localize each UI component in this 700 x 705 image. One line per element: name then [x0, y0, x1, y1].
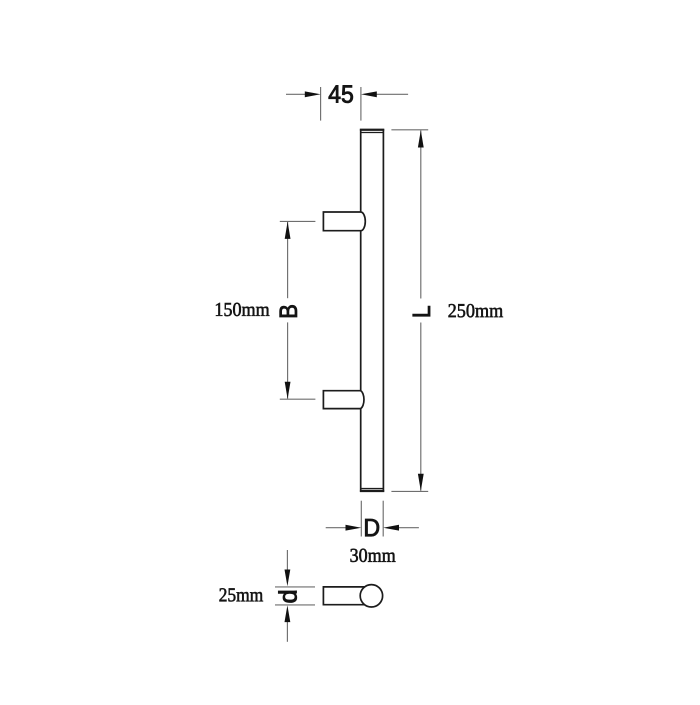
dim B/150mm: dimension line lower segment: [287, 322, 289, 398]
dim L/250mm: top arrowhead: [418, 130, 424, 147]
bar top end-cap line: [361, 132, 384, 134]
bar top edge (thick): [360, 129, 384, 131]
dim L/250mm: top extension line: [391, 129, 428, 131]
side view: post rectangle: [323, 587, 365, 605]
label 150mm: [216, 303, 269, 316]
dim B/150mm: bottom arrowhead: [285, 382, 291, 399]
dim d/25mm: lower arrowhead (points up): [285, 605, 291, 622]
dim d/25mm: upper leader line: [286, 550, 288, 570]
dim D/30mm: left arrowhead: [346, 525, 362, 531]
side view: bar cross-section circle: [360, 585, 382, 607]
dim D/30mm: right leader line: [399, 527, 419, 529]
dim 45: right extension line: [360, 87, 362, 121]
dim B/150mm: dimension line upper segment: [287, 222, 289, 298]
handle bar (front view): [361, 130, 384, 491]
bar bottom edge (thick): [360, 490, 384, 492]
dim L/250mm: bottom arrowhead: [418, 474, 424, 491]
label 25mm: [219, 588, 263, 601]
dim L/250mm: dimension line lower segment: [420, 323, 422, 491]
dim D/30mm: right arrowhead: [383, 525, 399, 531]
bar bottom end-cap line: [361, 488, 384, 490]
dim d/25mm: top extension line: [275, 586, 315, 588]
dim 45: right arrowhead: [361, 91, 377, 97]
label D: [365, 519, 379, 536]
dim d/25mm: bottom extension line: [275, 604, 315, 606]
top standoff post: [323, 212, 365, 231]
dim d/25mm: lower leader line: [286, 622, 288, 642]
dim 45: left leader line: [286, 93, 306, 95]
label L (rotated): [413, 306, 430, 316]
label B (rotated): [280, 305, 297, 317]
dim d/25mm: upper arrowhead (points down): [285, 570, 291, 587]
dim D/30mm: left leader line: [326, 527, 346, 529]
bottom standoff post: [323, 391, 364, 409]
dim B/150mm: top extension line: [280, 220, 316, 222]
dimension text 45: [329, 85, 353, 102]
label 250mm: [449, 304, 503, 317]
label d (rotated): [278, 591, 296, 602]
dim L/250mm: dimension line upper segment: [420, 130, 422, 298]
dim D/30mm: right extension line: [382, 501, 384, 537]
dim 45: left arrowhead: [305, 91, 321, 97]
dim 45: left extension line: [320, 87, 322, 121]
dim L/250mm: bottom extension line: [391, 490, 428, 492]
dim D/30mm: left extension line: [360, 501, 362, 537]
dim B/150mm: bottom extension line: [280, 398, 316, 400]
dim B/150mm: top arrowhead: [285, 222, 291, 239]
dim 45: right leader line: [376, 93, 408, 95]
label 30mm: [350, 549, 395, 562]
